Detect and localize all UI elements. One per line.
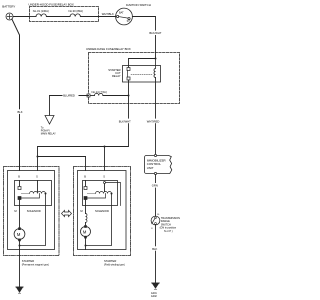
svg-text:BAT: BAT	[119, 12, 124, 15]
svg-text:(Field winding type): (Field winding type)	[104, 263, 125, 266]
svg-text:ST: ST	[127, 20, 131, 23]
svg-text:M: M	[17, 232, 21, 237]
svg-text:GRN: GRN	[152, 184, 158, 188]
svg-text:BATTERY: BATTERY	[2, 5, 15, 9]
svg-text:WHT/BLK: WHT/BLK	[102, 12, 114, 16]
svg-text:BLK: BLK	[152, 247, 157, 251]
svg-text:MAIN RELAY: MAIN RELAY	[41, 132, 56, 135]
svg-text:No.31 (130A): No.31 (130A)	[33, 9, 49, 13]
svg-text:BLK: BLK	[18, 110, 23, 114]
svg-text:10: 10	[157, 214, 160, 216]
svg-text:(Permanent magnet type): (Permanent magnet type)	[22, 263, 49, 266]
svg-text:M: M	[80, 209, 83, 213]
svg-text:N or P ): N or P )	[164, 230, 173, 233]
svg-text:UNDER-HOOD FUSE/RELAY BOX: UNDER-HOOD FUSE/RELAY BOX	[29, 2, 74, 6]
svg-text:UNIT: UNIT	[147, 166, 154, 170]
svg-text:WHT/RED: WHT/RED	[147, 119, 160, 123]
svg-text:BLK/WHT: BLK/WHT	[119, 119, 131, 123]
svg-text:M: M	[14, 209, 17, 213]
svg-text:BLU/RED: BLU/RED	[63, 94, 75, 98]
svg-text:STARTER: STARTER	[104, 259, 116, 263]
svg-text:SOLENOID: SOLENOID	[27, 209, 41, 213]
svg-text:SOLENOID: SOLENOID	[95, 209, 109, 213]
svg-text:8: 8	[151, 228, 153, 230]
svg-text:STARTER: STARTER	[22, 259, 34, 263]
svg-text:UNDER-DASH FUSE/RELAY BOX: UNDER-DASH FUSE/RELAY BOX	[86, 47, 131, 51]
svg-text:RELAY: RELAY	[112, 74, 121, 78]
svg-text:M: M	[83, 229, 87, 234]
svg-text:BLK/WHT: BLK/WHT	[149, 31, 161, 35]
svg-text:No.30 (80A): No.30 (80A)	[69, 9, 84, 13]
svg-text:IGNITION SWITCH: IGNITION SWITCH	[126, 3, 151, 7]
svg-text:G402: G402	[151, 295, 158, 298]
svg-text:No.14 (7.5A): No.14 (7.5A)	[92, 90, 107, 94]
